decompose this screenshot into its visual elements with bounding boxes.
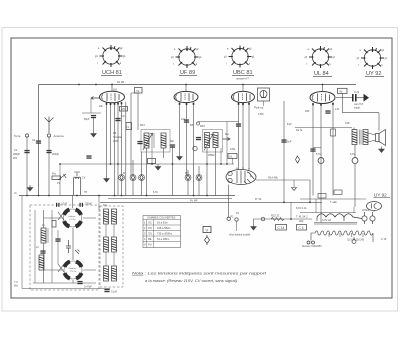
svg-text:1M: 1M [113,88,118,92]
external speaker coupling cap and arrow [336,94,369,102]
svg-text:mesure HT: mesure HT [236,77,249,81]
secondary bus wire y201 [100,201,322,203]
scattered value labels [14,105,355,265]
tube socket UBC 81 [224,46,255,68]
terre wire down [26,137,28,196]
wire down from 127 line to OT [353,128,355,131]
coupling cap label below [354,103,364,110]
wire pin4 UCH81 [117,102,119,195]
wire x379 down to speaker [378,113,380,131]
osc coil wires [106,224,114,266]
jack J4 lower wire [187,181,189,196]
svg-text:a la masse. (Reseau 110V, CV o: a la masse. (Reseau 110V, CV ouvert, san… [145,279,237,283]
svg-text:Secteur 110/245V: Secteur 110/245V [302,245,322,248]
svg-text:MF1: MF1 [140,124,145,127]
transformer core line 2 [314,223,357,225]
schematic border frame [11,38,392,298]
label T.V. left bottom [14,281,19,288]
svg-text:M: M [123,172,125,175]
wire x131 down [130,93,132,176]
T1 primary coil [144,133,149,148]
small circle trimmer below C12 [193,146,197,150]
extra wire y88 link UCH area [131,92,138,94]
capacitor C13 x172 [170,144,175,147]
wire 7b box down [342,94,344,113]
CV1 right connect wire [83,217,96,219]
UY92 cathode drop wire [373,211,375,213]
wire from box 7a down [125,102,127,196]
chassis bus wire y195 [19,195,235,197]
dial lamp L2 [352,158,358,164]
fuse circle [261,217,265,221]
jack J4 [185,175,191,181]
wire from P2 line to fuse [257,218,312,220]
svg-text:R14 40k: R14 40k [268,176,278,180]
ground under C7 [91,131,97,137]
terre terminal [25,134,28,137]
speaker wires [368,133,376,142]
svg-text:16 a 51m: 16 a 51m [157,221,168,225]
label C1 [13,149,21,160]
UCH81 plate wire to top bus [111,85,113,92]
wire UF89 pin2 [186,103,188,176]
trimmer arrow across T2 [204,134,213,151]
selector wire [353,237,355,240]
mains right lead [372,233,374,242]
AGC diode arrow near UCH81 [91,97,100,100]
resistor box right of T2 [228,154,237,159]
svg-text:6,3V: 6,3V [153,191,158,194]
heater winding end hooks [317,217,344,221]
svg-text:T. alim: T. alim [330,201,337,204]
bottom wire inside box [33,282,96,284]
oscillator coil stack C2 [112,266,117,281]
volume pot wire x284 [283,101,285,202]
tube socket UL 84 [305,46,336,68]
left column wire [43,210,45,228]
wire bend down to ground left [254,219,257,224]
antenna wire down [48,137,50,196]
svg-text:C 14: C 14 [278,226,285,230]
svg-text:Ra 7k: Ra 7k [296,129,303,132]
transformer core line [314,222,357,224]
table frame [143,216,181,248]
wire x99 bus to box [98,196,100,211]
oscillator coil stack C [104,266,109,281]
ground under pin1 wire [104,176,110,182]
cap on UBC81 pin1 [236,123,241,126]
svg-text:HT: HT [84,191,88,194]
dashed enclosure oscillator coils [100,206,123,287]
OT core lines [360,130,362,145]
capacitor C9 on pin4 wire [115,118,120,121]
small box 7a above UCH81 [135,88,143,94]
wire UBC81 pin1 [238,103,240,171]
label 0,47uF bottom cap [77,281,82,284]
wire from CV2 down [72,280,74,283]
IF transformer T2 box [203,130,223,153]
label UF 89 [179,70,197,76]
small box 165 grid resistor UCH81 [120,107,128,112]
ground UF89 cathode [177,154,183,160]
svg-text:220pF: 220pF [52,153,60,156]
wire arrow to C7 line [90,98,92,113]
wire UL84 pin2 [320,103,322,222]
jack J3 [139,175,145,181]
svg-text:C 22: C 22 [354,91,360,94]
capacitor C1 on terre wire [24,150,29,153]
svg-text:6,3V: 6,3V [350,153,355,156]
svg-text:CV: CV [75,210,79,213]
jack J2 upper wire [132,160,134,175]
wire pin3 UCH81 [114,103,116,196]
svg-text:168 a 582m: 168 a 582m [157,226,171,230]
mains plug circles [307,241,315,244]
svg-text:0,5M: 0,5M [258,113,263,116]
svg-text:T. 41-24.2: T. 41-24.2 [296,215,308,219]
antenna coil L1 core [47,228,49,243]
tube socket UY 92 [357,47,388,69]
CV2 left connect wire [44,269,63,271]
ground arrow left of fuse [251,224,257,230]
svg-text:C 4: C 4 [299,226,304,230]
svg-text:250pF: 250pF [13,153,21,156]
antenna terminal [47,134,50,137]
CV link wire [72,228,74,260]
P2 terminal circle [227,216,234,221]
wire x221 T2 right down [220,148,222,164]
capacitor C5 on x38 wire [36,140,41,143]
junction dots middle [78,84,323,165]
C7 wire down [93,118,95,131]
pin caps UL84 [312,103,334,106]
jack J2 [130,175,136,181]
svg-text:C18: C18 [345,122,350,125]
junction dot x291 [290,218,292,220]
plate feed horizontal to OT [295,127,352,129]
svg-text:PU: PU [148,243,152,247]
svg-text:suppl.: suppl. [354,107,361,110]
label UY 92 [365,71,384,77]
wire pin5 UCH81 to jack [121,102,123,175]
ground below speaker [379,147,385,153]
nota note text [132,272,268,284]
svg-text:MF2: MF2 [200,125,205,128]
jack J3 lower wire [141,181,143,196]
padder trimmer caps between CVs [66,240,80,254]
boxed label C4 [297,225,307,231]
svg-text:7b: 7b [339,89,343,93]
svg-text:170: 170 [335,108,340,111]
detector diode arrow right of T2 [223,138,231,141]
cadre frame antenna coil [74,172,81,195]
wire x138 from 7a box [137,93,139,130]
wire UF89 pin3 [193,103,195,196]
capacitor C12 left of T2 [196,137,201,140]
wire transformer right vertical [353,207,355,213]
small box top power area 2 [334,190,342,195]
speaker [376,130,386,146]
svg-text:51 a 186m: 51 a 186m [157,237,169,241]
jack J1 lower wire [121,181,123,196]
svg-text:1nF: 1nF [181,118,186,121]
voltage selector circle [352,240,356,244]
rectifier UY92 envelope [367,202,382,211]
svg-text:R6: R6 [113,131,117,135]
extra tuning box detail: CV1 left connect wire [44,217,62,219]
wire lamp L2 down [354,164,356,208]
svg-text:0,1uF: 0,1uF [111,291,118,294]
filter electrolytic caps pair [362,212,375,224]
wire transformer left vertical [315,199,317,213]
svg-text:2kV: 2kV [13,157,18,160]
UL84 plate wire to bus [322,85,324,92]
trimmer arrow across T1 [143,133,153,150]
wire lamp L2 up [354,145,356,158]
T2 primary coil [205,133,210,148]
chassis return wire y198.5 [108,198,232,200]
svg-text:2x50uF: 2x50uF [362,209,371,212]
svg-text:Pot.: Pot. [52,173,57,176]
svg-text:Pr. 50: Pr. 50 [255,198,262,201]
dial lamp L1 [318,158,324,164]
dashed enclosure tuning section [30,205,99,290]
small box on UCH81 wire lower [126,123,132,130]
CV1 stem wire [72,196,74,209]
svg-text:C 15: C 15 [381,238,387,241]
svg-text:0,47uF: 0,47uF [84,286,92,289]
junction dots on buses [26,195,311,204]
capacitor C3 on antenna wire [46,150,51,153]
capacitor on x284 [281,139,286,142]
svg-text:47p: 47p [121,115,126,118]
wire UL84 pin3 [332,103,334,196]
label UY 92 second [374,193,391,198]
svg-text:470k: 470k [113,139,119,143]
small box on x333 [331,129,336,136]
svg-text:455kc: 455kc [208,153,216,157]
output transformer secondary [363,130,368,145]
wire x227 down [226,122,228,165]
svg-text:6,3V 0,1A: 6,3V 0,1A [296,207,307,210]
left outside wire down [21,196,23,289]
svg-text:OC: OC [148,221,152,225]
HT wires top area [300,212,356,214]
jack J1 [119,175,125,181]
wire jack box PU down [263,101,265,106]
junction dots AVC line [59,163,228,165]
grid link line y121 [198,121,239,123]
svg-text:R22 22: R22 22 [271,214,280,218]
svg-text:BE: BE [148,237,152,241]
T2 lead down left [206,148,208,196]
small boxes top power area [318,194,326,199]
P1 potentiometer [52,174,66,180]
output pentode U4 UL84 envelope [310,92,335,104]
boxed label C14 [276,225,287,231]
svg-text:400: 400 [299,219,304,223]
svg-text:0,1: 0,1 [229,155,233,159]
svg-text:R16: R16 [305,110,310,113]
jack J4 upper wire [187,170,189,175]
jack J5 upper wire [198,166,200,175]
ground under T1 [155,164,161,170]
tube socket UF 89 [171,46,202,68]
duodiode-triode U3 UBC81 envelope [232,91,255,102]
svg-text:5nF: 5nF [287,140,292,144]
svg-text:8,2k: 8,2k [287,123,292,126]
wire UF89 pin1 [179,103,181,155]
wire pin2 UCH81 [110,103,112,164]
T1 core lines [152,133,154,148]
variable capacitor CV1 [62,208,83,229]
small cap C8 [86,155,91,158]
svg-text:7a: 7a [136,89,140,93]
small diamond arrows symbol x297 [296,156,300,163]
wire pin1 UCH81 [106,103,108,177]
wire below second terminal [236,221,238,231]
svg-text:Pr. HP: Pr. HP [190,199,198,203]
boxed V voltmeter symbol [203,227,211,233]
oscillator coil stack B [104,237,109,252]
svg-text:735 a 2000m: 735 a 2000m [157,232,172,236]
svg-text:0,1uF: 0,1uF [61,203,68,206]
wire x152 T1 core down [151,148,153,164]
grid capacitor C7 [91,115,96,118]
mains winding taps [329,233,363,237]
small box 7b above UL84 [338,88,348,93]
jack J5 lower wire [198,181,200,196]
oscillator coil stack A [104,209,109,224]
svg-text:470k: 470k [230,148,236,151]
oscillator coil stack A2 [112,209,117,224]
svg-text:50pF: 50pF [84,118,90,121]
wire x294 down from switch line [293,180,295,188]
antenna symbol [45,117,54,134]
left column wire 2 [43,243,45,283]
small cap inside box low [55,238,60,241]
cap on UF89 pin2 [184,119,189,122]
pin caps UF89 [179,103,195,106]
grid capacitor C7 line [82,112,101,114]
bottom chassis wire [22,288,110,290]
svg-text:Terre: Terre [14,134,21,138]
T1 secondary coil [161,133,166,148]
resistor boxes left column [52,221,56,228]
switch output line [256,179,310,181]
UBC81 plate wire to bus [242,85,244,92]
coil L2 left column lower [39,255,44,270]
oscillator coil stack B2 [112,237,117,252]
HT line y112.7 [343,112,380,114]
mains primary winding (loops) [315,231,373,235]
svg-text:Nota : Les tensions indiquees: Nota : Les tensions indiquees sont mesur… [132,272,268,276]
pick-up jack box right of UBC81 [258,88,270,101]
HT top bus wire [39,84,357,86]
wire x310 from switch line down [309,180,311,202]
CV2 right connect wire [84,269,97,271]
resistor box under T1 [148,159,156,164]
cap below bus left [56,203,60,207]
output transformer primary [352,130,357,145]
pentode U2 UF89 envelope [174,91,198,102]
wire from detector resistor down [232,159,234,165]
wire x291 from prise line down [290,202,292,219]
cathode resistor marks UL84 [325,110,330,113]
svg-text:CV: CV [82,177,86,180]
second terminal circle [235,218,238,221]
wire x172 [172,146,174,196]
label UBC 81 [232,70,254,76]
UF89 plate wire to bus [185,85,187,92]
pin caps UCH81 [106,102,123,105]
svg-text:GO: GO [148,232,152,236]
pin caps UBC81 [238,103,250,106]
small trimmer arrows on CV1 [58,212,64,220]
jack J5 [196,175,202,181]
T2 lead down right [215,148,217,196]
antenna coil L1 [41,228,46,243]
tube socket UCH 81 [95,45,126,67]
svg-text:V: V [206,228,209,233]
T1 trimmer cap left [137,141,142,144]
svg-text:PO: PO [148,226,152,230]
small trimmer arrows on CV2 [58,264,64,272]
wire x141.5 to jack [141,152,143,176]
cap below bus right [80,203,84,207]
variable capacitor CV2 [63,260,84,281]
heater winding (scallops) [317,214,362,219]
T1 lead down right [163,148,165,158]
left HT drop wire [38,85,40,196]
svg-text:6,3V: 6,3V [316,153,321,156]
wire from AVC line down to tuning box x60 [59,164,61,196]
cap near UL84 x313 [310,148,315,151]
svg-text:220pF: 220pF [85,203,92,206]
ground arrow above left bus end [27,185,33,191]
AVC line horizontal [60,163,234,165]
tuning box inner vertical x52 [51,210,53,283]
svg-text:Det: Det [225,133,229,136]
jack J2 lower wire [132,181,134,196]
svg-text:CV: CV [75,262,79,265]
label UCH 81 [101,70,122,76]
tuning box inner vertical x58 [57,230,59,264]
wire UL84 pin1 [312,103,314,196]
wire down from switch [228,185,230,218]
mains left lead [311,233,315,241]
svg-text:50p: 50p [170,140,175,143]
svg-text:GAMMES COUVERTES: GAMMES COUVERTES [147,216,176,220]
small cap left column [40,250,45,253]
wire UBC81 pin2 [242,103,244,169]
cathode link wire y148 [313,147,321,149]
svg-text:UY 92: UY 92 [374,193,387,198]
T2 top-left circle [196,122,199,125]
rotary switch body [226,167,256,184]
ground triangle x294 [292,188,297,191]
svg-text:Vers bobine mobile: Vers bobine mobile [229,234,251,237]
IF transformer T1 box [141,130,170,153]
HT feed wire y199 [300,198,366,200]
wire left edge inside box [34,210,36,283]
svg-text:Antenne: Antenne [54,134,65,138]
svg-text:6,3V 2A: 6,3V 2A [322,218,331,222]
triode-hexode U1 UCH81 envelope [100,91,125,103]
T1 lead down left [146,148,148,196]
T2 secondary coil [213,133,218,148]
resistor zigzag on line [271,218,284,221]
